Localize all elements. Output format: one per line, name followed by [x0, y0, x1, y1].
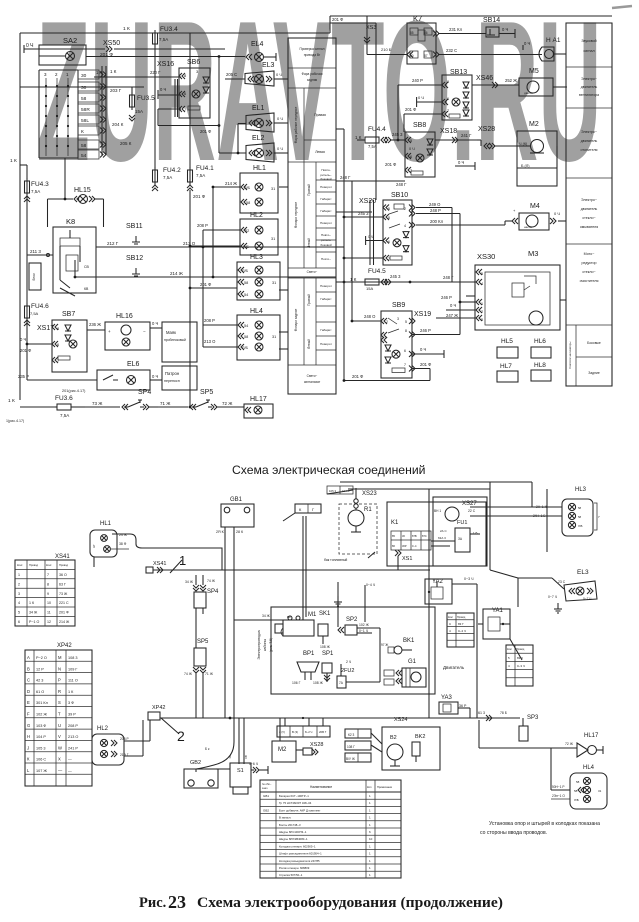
svg-text:S1: S1 — [237, 768, 244, 774]
svg-text:сигнализат: сигнализат — [304, 380, 321, 384]
svg-text:XS18: XS18 — [440, 128, 457, 135]
SA2 terminal boxes — [78, 66, 106, 159]
svg-text:HL17: HL17 — [250, 396, 267, 403]
svg-text:К2 3: К2 3 — [348, 733, 355, 737]
svg-text:Схема электрическая соединений: Схема электрическая соединений — [232, 463, 425, 477]
svg-text:201 Ф: 201 Ф — [332, 17, 343, 22]
svg-text:249 О: 249 О — [429, 202, 441, 207]
switch block SB6 XS16 — [157, 59, 210, 118]
svg-text:200 Кл: 200 Кл — [430, 219, 444, 224]
svg-text:W: W — [58, 745, 62, 750]
svg-text:15А: 15А — [366, 286, 373, 291]
svg-text:1 К: 1 К — [29, 601, 35, 605]
SB10 wires — [416, 202, 505, 335]
switch SP5 bottom — [184, 614, 214, 718]
svg-text:208 Р: 208 Р — [197, 223, 208, 228]
svg-text:EL3: EL3 — [577, 569, 589, 576]
svg-text:SB7: SB7 — [62, 311, 75, 318]
svg-text:3 Ф: 3 Ф — [68, 701, 74, 705]
svg-text:205 С: 205 С — [226, 72, 237, 77]
svg-text:213 О: 213 О — [68, 735, 78, 739]
svg-text:34 Ж: 34 Ж — [29, 611, 38, 615]
svg-text:омывателя: омывателя — [580, 225, 598, 229]
lamp EL4 — [246, 41, 276, 62]
svg-text:31: 31 — [272, 281, 276, 285]
svg-text:0 Ч: 0 Ч — [418, 95, 424, 100]
svg-text:6: 6 — [404, 349, 406, 353]
wire 235Р — [18, 340, 97, 393]
svg-text:78 Б: 78 Б — [500, 711, 508, 715]
svg-text:54: 54 — [244, 293, 248, 297]
svg-text:FU3.5: FU3.5 — [137, 95, 155, 102]
switch SA2 — [39, 36, 86, 77]
svg-text:5: 5 — [388, 207, 390, 211]
svg-text:HL16: HL16 — [116, 313, 133, 320]
svg-text:87С: 87С — [422, 534, 427, 538]
fuse FU4.3 — [24, 165, 49, 305]
svg-text:Задние: Задние — [588, 371, 600, 375]
svg-text:EL2: EL2 — [252, 135, 265, 142]
svg-text:BK1: BK1 — [403, 638, 415, 644]
svg-text:74 Ж: 74 Ж — [184, 672, 193, 676]
svg-text:HL4: HL4 — [583, 765, 595, 771]
switch SP4 top — [85, 389, 158, 410]
lamp cluster HL3 top — [200, 254, 280, 300]
svg-text:30: 30 — [81, 85, 87, 91]
svg-text:1: 1 — [369, 801, 371, 805]
sensor BK2 — [412, 734, 425, 762]
svg-text:HL2: HL2 — [97, 726, 109, 732]
lamp HL17 top — [222, 396, 273, 418]
svg-text:246 Р: 246 Р — [441, 295, 452, 300]
svg-text:№ обо−: № обо− — [262, 782, 272, 786]
svg-text:L: L — [27, 768, 30, 773]
svg-text:привода Вг: привода Вг — [304, 53, 321, 57]
svg-text:4 (У): 4 (У) — [279, 730, 285, 734]
svg-text:1: 1 — [18, 573, 20, 577]
svg-text:XS19: XS19 — [414, 311, 431, 318]
svg-text:В запасн.: В запасн. — [279, 816, 291, 820]
svg-text:9: 9 — [447, 80, 449, 84]
svg-text:Поворот: Поворот — [320, 284, 332, 288]
svg-text:Схема электрооборудования (п: Схема электрооборудования (продолжение) — [197, 895, 503, 911]
svg-text:HL5: HL5 — [501, 338, 513, 345]
switch SP4 bottom — [185, 575, 219, 614]
svg-text:+: + — [108, 329, 111, 334]
connector XS16 strip — [175, 79, 178, 117]
svg-text:1: 1 — [369, 794, 371, 798]
lamp cluster HL4 bottom — [551, 748, 607, 809]
svg-text:бак топливный: бак топливный — [324, 558, 347, 562]
svg-text:0−6 Ч: 0−6 Ч — [249, 762, 258, 766]
svg-text:Двигатель: Двигатель — [443, 665, 465, 670]
motor M4 — [505, 203, 566, 230]
svg-text:С: С — [449, 622, 452, 626]
svg-text:Провод: Провод — [29, 563, 38, 567]
svg-text:236 Ж: 236 Ж — [89, 322, 101, 327]
svg-text:248 Г: 248 Г — [443, 275, 454, 280]
svg-text:108 Ж: 108 Ж — [313, 681, 324, 685]
svg-text:7: 7 — [598, 515, 600, 519]
svg-text:2Я К: 2Я К — [216, 530, 225, 534]
sensor SP1 — [322, 651, 334, 682]
svg-text:V: V — [58, 734, 61, 739]
connector XS50 — [100, 40, 225, 58]
svg-text:В: В — [27, 666, 30, 671]
wire 1К top — [112, 26, 155, 33]
svg-text:1: 1 — [369, 844, 371, 848]
svg-text:0 Ч: 0 Ч — [26, 43, 34, 49]
svg-text:GB2: GB2 — [190, 760, 201, 766]
wire 0Ч SA2 bus — [86, 55, 245, 153]
svg-text:Провод: Провод — [59, 563, 68, 567]
solenoid YA1 — [478, 608, 510, 639]
svg-text:252 Ж: 252 Ж — [505, 78, 517, 83]
svg-text:4: 4 — [404, 224, 406, 228]
svg-text:XP42: XP42 — [152, 705, 165, 711]
lamp EL6 — [97, 361, 162, 390]
svg-text:58: 58 — [244, 281, 248, 285]
svg-text:YA3: YA3 — [441, 695, 453, 701]
svg-text:Н: Н — [27, 734, 30, 739]
svg-text:GB2: GB2 — [263, 808, 269, 812]
svg-text:1 К: 1 К — [8, 398, 15, 404]
svg-text:7,5А: 7,5А — [159, 37, 168, 42]
wire 201Ф — [200, 129, 211, 134]
connector XS18 — [435, 128, 477, 143]
svg-text:1: 1 — [369, 808, 371, 812]
svg-text:FU4.2: FU4.2 — [163, 167, 181, 174]
svg-text:3: 3 — [18, 592, 20, 596]
svg-text:10: 10 — [47, 601, 51, 605]
svg-text:А: А — [27, 655, 30, 660]
sensor SK1 — [318, 611, 331, 649]
svg-text:Левый: Левый — [307, 339, 311, 349]
lamp EL3 top — [225, 62, 288, 86]
svg-text:Примечание: Примечание — [377, 785, 393, 789]
svg-text:вентилятора: вентилятора — [579, 93, 599, 97]
fuse FU3.5 — [129, 92, 155, 121]
box патрон переносной — [162, 366, 197, 390]
svg-text:7: 7 — [447, 109, 449, 113]
svg-text:R: R — [58, 689, 61, 694]
svg-text:220 Г: 220 Г — [150, 70, 161, 75]
svg-text:7: 7 — [404, 363, 406, 367]
svg-text:SB8: SB8 — [413, 122, 426, 129]
lamp EL1 — [246, 105, 288, 132]
svg-text:Р−2 О: Р−2 О — [36, 656, 47, 660]
connector block К Г — [283, 504, 321, 521]
svg-text:201 Ф: 201 Ф — [200, 129, 211, 134]
svg-text:0 Ч: 0 Ч — [276, 72, 282, 77]
svg-text:SB10: SB10 — [391, 192, 408, 199]
svg-text:Провод: Провод — [457, 616, 466, 619]
svg-text:редуктор: редуктор — [581, 261, 596, 265]
svg-text:HL15: HL15 — [74, 187, 91, 194]
svg-text:К: К — [81, 129, 84, 135]
svg-text:2: 2 — [481, 310, 483, 314]
switch S1 — [230, 762, 268, 794]
svg-text:61 О: 61 О — [36, 690, 44, 694]
svg-text:XS27: XS27 — [462, 501, 477, 507]
motor M2 — [517, 121, 557, 186]
svg-text:42 3: 42 3 — [36, 679, 43, 683]
svg-text:241 Г: 241 Г — [461, 133, 472, 138]
svg-text:30: 30 — [81, 73, 87, 79]
solenoid YA3 — [439, 695, 470, 718]
svg-text:301 Кл: 301 Кл — [36, 701, 48, 705]
svg-text:сигнал: сигнал — [583, 49, 594, 53]
wire EL feed — [219, 124, 246, 155]
svg-text:SB14: SB14 — [483, 17, 500, 24]
svg-text:74 Ж: 74 Ж — [207, 579, 216, 583]
svg-text:B2: B2 — [390, 735, 397, 741]
svg-text:72 Ж: 72 Ж — [222, 401, 233, 406]
lamp cluster HL1 bottom — [90, 521, 222, 570]
svg-text:0 Ч: 0 Ч — [554, 211, 560, 216]
svg-text:201 Ф: 201 Ф — [59, 611, 69, 615]
terminal boxes bottom — [277, 726, 330, 737]
svg-text:FU4.4: FU4.4 — [368, 126, 386, 133]
svg-text:FU4.5: FU4.5 — [368, 268, 386, 275]
svg-text:201 Ф: 201 Ф — [352, 374, 363, 379]
lamp HL7 — [497, 363, 518, 382]
svg-text:K7: K7 — [413, 14, 422, 23]
svg-text:+: + — [513, 208, 516, 213]
svg-text:Конт: Конт — [46, 563, 52, 567]
svg-text:39 Р: 39 Р — [68, 713, 76, 717]
svg-text:5: 5 — [481, 318, 483, 322]
wire 232С — [438, 48, 523, 55]
horn HA1 — [523, 37, 566, 61]
connector table XP42 — [25, 643, 92, 786]
wire risers M2 terminals — [280, 718, 323, 741]
svg-text:0 Ч: 0 Ч — [502, 27, 508, 32]
svg-text:2А С: 2А С — [440, 529, 448, 533]
svg-text:G: G — [27, 723, 30, 728]
svg-text:0 Ч: 0 Ч — [277, 116, 283, 121]
svg-text:1 К: 1 К — [110, 69, 117, 74]
caption bottom — [139, 892, 503, 912]
svg-text:0 Ч: 0 Ч — [368, 235, 374, 239]
svg-text:4: 4 — [449, 629, 451, 633]
svg-text:61 3: 61 3 — [478, 711, 485, 715]
svg-text:205 К: 205 К — [120, 141, 132, 146]
svg-text:SP1: SP1 — [322, 651, 334, 657]
connector XS28 bottom — [303, 742, 323, 755]
svg-text:0 Ч: 0 Ч — [277, 146, 283, 151]
svg-text:со стороны ввода проводов.: со стороны ввода проводов. — [480, 830, 547, 836]
svg-text:85: 85 — [410, 31, 414, 35]
lamp cluster HL2 — [197, 212, 278, 255]
svg-text:Штифт разъединителя 601954−1: Штифт разъединителя 601954−1 — [279, 852, 322, 856]
svg-text:стекло−: стекло− — [582, 270, 595, 274]
svg-text:2 Ч: 2 Ч — [346, 660, 351, 664]
svg-text:Звуковой: Звуковой — [581, 39, 596, 43]
svg-text:Электро−: Электро− — [581, 198, 597, 202]
svg-text:K8: K8 — [66, 217, 75, 226]
svg-text:HL1: HL1 — [253, 165, 266, 172]
svg-text:EL3: EL3 — [262, 62, 275, 69]
svg-text:В/У Ж: В/У Ж — [346, 757, 355, 761]
svg-text:11: 11 — [47, 611, 51, 615]
wire 211 vertical — [364, 16, 407, 55]
svg-text:Патрон: Патрон — [165, 371, 180, 376]
svg-text:7,5А: 7,5А — [196, 173, 205, 178]
svg-text:36 Р: 36 Р — [459, 704, 467, 708]
svg-text:211 3: 211 3 — [30, 249, 41, 254]
svg-text:54: 54 — [81, 153, 87, 159]
svg-text:0 Ч: 0 Ч — [524, 41, 530, 46]
svg-text:Повто-: Повто- — [321, 168, 330, 172]
wiper motor M3 XS30 — [336, 249, 560, 330]
svg-text:Габарит: Габарит — [320, 297, 332, 301]
battery GB2 — [184, 760, 218, 788]
svg-text:N: N — [58, 666, 61, 671]
svg-text:86: 86 — [424, 31, 428, 35]
fuse FU3.4 — [153, 26, 179, 47]
svg-text:S: S — [58, 700, 61, 705]
svg-text:очистителя: очистителя — [580, 279, 599, 283]
rotated label электропроводка кабины — [257, 630, 273, 659]
svg-text:31: 31 — [271, 187, 275, 191]
svg-text:1(рис.4.17): 1(рис.4.17) — [6, 419, 24, 423]
svg-text:двигатель: двигатель — [581, 85, 598, 89]
svg-text:102 Ж: 102 Ж — [359, 623, 370, 627]
svg-text:87: 87 — [424, 54, 428, 58]
svg-text:Болты 201748−3: Болты 201748−3 — [279, 823, 301, 827]
svg-text:Шнуры 6РЛ/2В4080−1: Шнуры 6РЛ/2В4080−1 — [279, 837, 308, 841]
svg-text:1: 1 — [369, 873, 371, 877]
svg-text:СВ: СВ — [84, 265, 90, 269]
svg-text:SP5: SP5 — [200, 389, 213, 396]
svg-text:XS46: XS46 — [476, 75, 493, 82]
svg-text:0−1 Ч: 0−1 Ч — [359, 629, 368, 633]
svg-text:J: J — [27, 745, 29, 750]
note 1 рис — [6, 419, 24, 423]
svg-text:Б к: Б к — [205, 747, 210, 751]
svg-text:2FU2: 2FU2 — [341, 668, 354, 674]
svg-text:M3: M3 — [528, 249, 538, 258]
lamp EL2 — [246, 135, 288, 162]
fuse FU4.6 — [24, 303, 49, 340]
svg-text:58: 58 — [81, 143, 87, 149]
svg-text:0−3 Ч: 0−3 Ч — [464, 577, 474, 581]
svg-text:0 Ч: 0 Ч — [420, 347, 426, 352]
svg-text:ВН 1: ВН 1 — [434, 509, 441, 513]
svg-text:HL3: HL3 — [575, 487, 587, 493]
svg-text:HL2: HL2 — [250, 212, 263, 219]
svg-text:Наименование: Наименование — [310, 785, 332, 789]
top schematic frame — [20, 16, 612, 400]
svg-text:ВК: ВК — [287, 615, 291, 619]
svg-text:BP1: BP1 — [303, 651, 315, 657]
svg-text:Стрелка 507/50−1: Стрелка 507/50−1 — [279, 873, 303, 877]
svg-text:9: 9 — [47, 592, 49, 596]
svg-text:6: 6 — [18, 620, 20, 624]
svg-text:204 К: 204 К — [112, 122, 124, 127]
svg-text:4: 4 — [481, 282, 483, 286]
svg-text:Л/Б: Л/Б — [574, 798, 579, 802]
svg-text:23 С: 23 С — [558, 580, 566, 584]
svg-text:58: 58 — [81, 96, 87, 102]
svg-text:Т: Т — [58, 712, 61, 717]
svg-text:Конт: Конт — [17, 563, 23, 567]
svg-text:SB9: SB9 — [392, 302, 405, 309]
svg-text:F: F — [27, 712, 30, 717]
svg-text:Левая: Левая — [315, 150, 325, 154]
switch block SB13 — [397, 69, 472, 141]
svg-text:К: К — [299, 507, 302, 512]
svg-text:YA2: YA2 — [432, 579, 444, 585]
table YA1 — [506, 639, 533, 686]
lamp EL3 bottom — [518, 569, 597, 613]
svg-text:1: 1 — [369, 816, 371, 820]
svg-text:231 Кл: 231 Кл — [449, 27, 463, 32]
svg-text:6: 6 — [388, 240, 390, 244]
svg-text:241 Р: 241 Р — [68, 746, 78, 750]
svg-text:6: 6 — [447, 97, 449, 101]
svg-text:—: — — [58, 768, 63, 773]
svg-text:стекло−: стекло− — [582, 216, 595, 220]
svg-text:Поворот: Поворот — [320, 342, 332, 346]
svg-text:Позто−: Позто− — [321, 257, 331, 261]
svg-text:XS30: XS30 — [477, 252, 495, 261]
svg-text:58: 58 — [578, 515, 582, 519]
svg-text:72 Ж: 72 Ж — [565, 742, 574, 746]
svg-text:73 Ж: 73 Ж — [92, 401, 103, 406]
wire 231Кл — [438, 27, 486, 34]
label column middle — [288, 38, 336, 394]
svg-text:28 К: 28 К — [236, 530, 244, 534]
svg-text:XS28: XS28 — [478, 126, 495, 133]
lamp cluster HL1 — [213, 165, 278, 213]
sensor SP3 — [519, 715, 539, 741]
svg-text:201 Ф: 201 Ф — [100, 52, 113, 58]
beacon HL16 — [105, 313, 162, 350]
svg-text:FU1: FU1 — [457, 520, 467, 526]
svg-text:105 3: 105 3 — [36, 746, 46, 750]
parts list table — [260, 780, 401, 878]
svg-text:30Р: 30Р — [402, 544, 407, 548]
svg-text:Кол: Кол — [367, 785, 372, 789]
svg-text:63 Г: 63 Г — [59, 582, 66, 586]
svg-text:1: 1 — [369, 852, 371, 856]
motor M2 bottom — [272, 741, 303, 762]
lamp HL6 — [531, 338, 551, 358]
svg-text:0−7 Ч: 0−7 Ч — [583, 597, 591, 601]
svg-text:2: 2 — [386, 320, 388, 324]
svg-text:ритель: ритель — [321, 238, 331, 242]
wire to EL3 — [477, 482, 518, 718]
svg-text:24Н−1 Б: 24Н−1 Б — [533, 514, 545, 518]
svg-text:58: 58 — [574, 789, 578, 793]
svg-text:SA2: SA2 — [63, 36, 77, 45]
svg-text:Х: Х — [58, 757, 61, 762]
svg-text:214 Ж: 214 Ж — [225, 181, 237, 186]
svg-text:XS50: XS50 — [103, 40, 120, 47]
svg-text:FU4.3: FU4.3 — [31, 181, 49, 188]
wires to S1 — [196, 718, 248, 772]
svg-text:1 К: 1 К — [355, 135, 362, 140]
svg-text:Габарит: Габарит — [320, 197, 332, 201]
svg-text:8: 8 — [57, 326, 60, 331]
tag блок предохранителей — [29, 263, 41, 290]
svg-text:203 Г: 203 Г — [110, 88, 122, 93]
svg-text:221 С: 221 С — [59, 601, 69, 605]
svg-text:58: 58 — [244, 335, 248, 339]
svg-text:Электро−: Электро− — [581, 130, 597, 134]
